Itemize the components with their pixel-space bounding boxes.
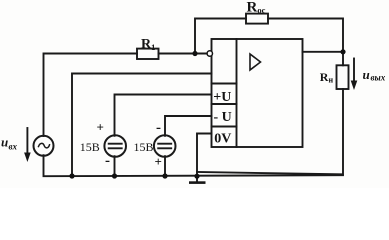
svg-text:R1: R1: [141, 37, 155, 52]
svg-text:u: u: [363, 67, 370, 82]
svg-text:15В: 15В: [80, 140, 100, 154]
svg-text:вх: вх: [9, 142, 18, 152]
svg-text:+U: +U: [213, 90, 231, 105]
svg-text:u: u: [1, 135, 8, 150]
svg-text:-: -: [156, 120, 161, 136]
svg-text:+: +: [97, 120, 104, 135]
svg-text:Rн: Rн: [320, 70, 334, 85]
svg-text:Rос: Rос: [247, 0, 266, 16]
svg-text:+: +: [155, 154, 162, 169]
svg-text:- U: - U: [214, 110, 232, 125]
svg-text:15В: 15В: [134, 140, 154, 154]
svg-text:вых: вых: [371, 73, 386, 83]
svg-text:0V: 0V: [214, 132, 231, 147]
svg-text:-: -: [105, 153, 110, 169]
